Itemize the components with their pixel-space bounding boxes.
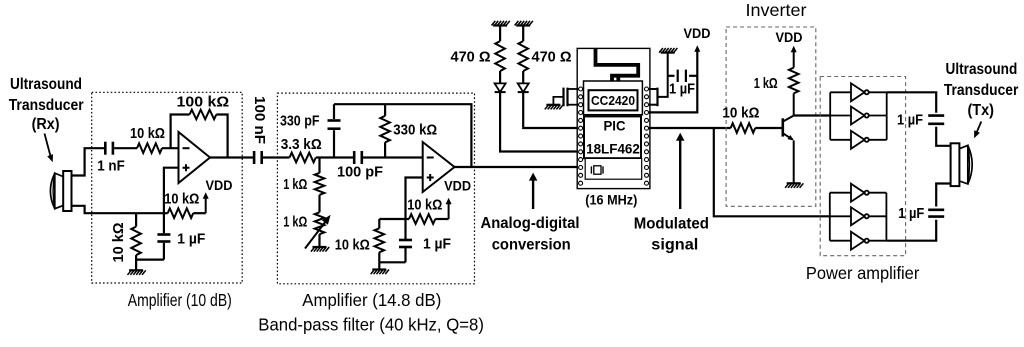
buffer input branch (830, 139, 851, 141)
svg-text:1 µF: 1 µF (898, 206, 924, 222)
buffer output branch (869, 115, 887, 117)
feedback wire + resistor 100 kOhm (171, 94, 230, 157)
svg-text:VDD: VDD (206, 178, 233, 193)
svg-text:Power amplifier: Power amplifier (806, 263, 920, 283)
CC2420 box (584, 81, 643, 115)
wire diode to module (523, 92, 578, 128)
wire 1nF to 10k (114, 147, 137, 149)
buffer output branch (869, 240, 887, 242)
resistor 10 kOhm input (130, 126, 165, 153)
svg-text:1 kΩ: 1 kΩ (283, 177, 307, 193)
svg-text:(Tx): (Tx) (967, 102, 994, 119)
top group output bus (886, 92, 888, 140)
amplifier 14.8dB dashed box (277, 93, 474, 284)
potentiometer arrow (305, 215, 331, 249)
buffer output branch (869, 91, 887, 93)
svg-text:Transducer: Transducer (9, 97, 84, 114)
svg-text:1 kΩ: 1 kΩ (283, 215, 307, 231)
svg-text:10 kΩ: 10 kΩ (335, 237, 370, 253)
label analog-digital conversion (481, 215, 580, 253)
capacitor 100 pF (337, 151, 383, 180)
svg-text:100 nF: 100 nF (251, 96, 267, 144)
buffer input branch (830, 115, 851, 117)
capacitor 1 uF module (668, 70, 698, 98)
feedback rail box2 (334, 104, 471, 167)
output wire to module (455, 166, 579, 168)
resistor 10 kOhm inverter (722, 105, 759, 132)
svg-text:10 kΩ: 10 kΩ (722, 105, 759, 121)
svg-text:1 µF: 1 µF (669, 81, 695, 97)
supply rail hatched (right 470) (515, 21, 533, 26)
VDD arrow amp1 (203, 178, 233, 213)
svg-text:Transducer: Transducer (944, 82, 1019, 99)
bottom output wire to cap (886, 220, 936, 241)
svg-text:1 µF: 1 µF (423, 236, 451, 252)
resistor 3.3 kOhm (281, 137, 322, 162)
wire Rx bottom to bias node (72, 206, 164, 213)
collector output wire (794, 114, 831, 116)
svg-text:470 Ω: 470 Ω (451, 49, 491, 65)
modulated signal arrow (676, 133, 685, 209)
buffer input branch (830, 91, 851, 93)
inverter buffer (851, 131, 869, 149)
diode (518, 83, 529, 92)
PIC module board (577, 48, 650, 188)
resistor 10 kOhm to ground (111, 213, 141, 270)
ground amp1 (128, 270, 146, 275)
ultrasound transducer Tx label (944, 61, 1019, 119)
plus input bias wire (406, 178, 423, 220)
svg-text:330 kΩ: 330 kΩ (393, 123, 437, 139)
transducer TR1 (Rx) (50, 171, 71, 211)
resistor 1 kOhm inverter (754, 68, 799, 94)
resistor 1 kOhm (283, 158, 324, 195)
wire Rx top to 1nF (72, 148, 105, 175)
buffer input branch (830, 215, 851, 217)
svg-text:1 µF: 1 µF (897, 112, 923, 128)
svg-text:Inverter: Inverter (746, 0, 807, 20)
inverter buffer (851, 107, 869, 125)
variable resistor 1 kOhm (283, 195, 324, 247)
inverter dashed box (726, 27, 816, 206)
right bracket pins to gnd line (649, 53, 668, 106)
capacitor 100 nF (251, 96, 267, 164)
resistor 470 Ohm (451, 26, 505, 84)
wire 10k to opamp (162, 147, 179, 149)
bottom panel of module (585, 158, 642, 179)
diode (495, 83, 506, 92)
svg-text:VDD: VDD (444, 179, 471, 194)
svg-text:3.3 kΩ: 3.3 kΩ (281, 137, 322, 153)
arrow to Rx transducer (45, 134, 54, 163)
svg-text:conversion: conversion (492, 236, 571, 253)
ground box2 bias (371, 270, 389, 275)
inverter buffer (851, 184, 869, 202)
VDD wire module (649, 26, 711, 113)
ground inverter (785, 183, 803, 188)
svg-text:Ultrasound: Ultrasound (10, 76, 82, 93)
analog-digital conversion arrow (529, 173, 538, 209)
transducer TR2 (Tx) (951, 143, 973, 186)
svg-text:Analog-digital: Analog-digital (481, 215, 580, 232)
svg-text:VDD: VDD (684, 26, 711, 41)
inverter buffer (851, 207, 869, 225)
buffer output branch (869, 215, 887, 217)
top output wire to cap (887, 92, 937, 112)
svg-text:PIC: PIC (604, 119, 626, 134)
modulated output wire (649, 127, 731, 129)
svg-text:100 pF: 100 pF (337, 164, 383, 180)
power amplifier dashed box (820, 77, 905, 256)
ultrasound transducer Rx label (9, 76, 84, 133)
svg-text:10 kΩ: 10 kΩ (111, 222, 127, 262)
buffer output branch (869, 192, 887, 194)
VDD arrow inverter (776, 30, 803, 68)
amplifier 10dB dashed box (92, 92, 243, 283)
svg-text:Amplifier (14.8 dB): Amplifier (14.8 dB) (302, 290, 441, 310)
svg-text:VDD: VDD (776, 30, 803, 45)
top group input bus (829, 92, 831, 140)
svg-text:(16 MHz): (16 MHz) (585, 192, 637, 207)
wire 100nF to box2 (263, 156, 290, 158)
svg-text:470 Ω: 470 Ω (532, 49, 572, 65)
buffer output branch (869, 139, 887, 141)
svg-text:Ultrasound: Ultrasound (946, 61, 1018, 78)
svg-text:1 nF: 1 nF (97, 158, 125, 174)
capacitor 1 uF top (897, 112, 944, 128)
svg-text:Modulated: Modulated (634, 215, 709, 232)
op-amp U1 (179, 132, 211, 183)
label modulated signal (634, 215, 709, 253)
supply rail hatched (left 470) (492, 21, 510, 26)
capacitor 1 uF box2 (399, 219, 451, 262)
svg-text:Amplifier (10 dB): Amplifier (10 dB) (128, 290, 232, 310)
svg-text:100 kΩ: 100 kΩ (177, 94, 230, 110)
svg-text:10 kΩ: 10 kΩ (407, 197, 442, 213)
crystal icon (591, 166, 603, 174)
resistor 10 kOhm to ground box2 (335, 219, 384, 270)
svg-text:1 kΩ: 1 kΩ (754, 76, 778, 92)
base wire (755, 127, 781, 129)
PIC 18LF462 box (584, 116, 641, 158)
transistor Q1 (783, 93, 794, 183)
svg-text:330 pF: 330 pF (280, 114, 320, 130)
wire 100pF to opamp2 (362, 156, 423, 158)
main wire node to 100pF (316, 156, 354, 158)
capacitor 330 pF (280, 104, 341, 157)
ground below pot (311, 247, 329, 252)
svg-text:Band-pass filter (40 kHz, Q=8): Band-pass filter (40 kHz, Q=8) (258, 314, 484, 334)
bias junction wire (379, 218, 405, 220)
module pin headers (579, 87, 649, 185)
plus input wire down to bias (164, 168, 179, 214)
bottom group input bus (829, 193, 831, 241)
hatched rail above 1uF (659, 48, 677, 53)
svg-text:(Rx): (Rx) (32, 116, 60, 133)
capacitor 1 uF bottom (898, 206, 944, 222)
PCB antenna (596, 49, 639, 81)
arrow to Tx transducer (974, 122, 981, 139)
resistor 10 kOhm to VDD (164, 191, 206, 218)
resistor 470 Ohm (518, 26, 571, 84)
svg-text:signal: signal (651, 236, 698, 253)
svg-text:1 µF: 1 µF (177, 231, 205, 247)
op-amp U2 (423, 142, 455, 192)
inverter buffer (851, 232, 869, 250)
decoupling cap left of module (553, 88, 578, 107)
resistor 330 kOhm (380, 104, 437, 157)
inverter buffer (851, 83, 869, 101)
wire cap to Tx bottom (936, 184, 950, 207)
wire res bottom to cap bottom (136, 259, 164, 261)
capacitor 1 uF amp1 (157, 213, 205, 259)
tee down to power amp bottom group (714, 128, 830, 216)
wire res to cap bottom box2 (379, 261, 405, 263)
svg-text:CC2420: CC2420 (591, 93, 635, 108)
svg-text:10 kΩ: 10 kΩ (130, 126, 165, 142)
wire diode to module (500, 92, 578, 151)
svg-text:18LF462: 18LF462 (586, 142, 640, 157)
wire cap to Tx top (936, 127, 950, 146)
ground left of module (545, 105, 563, 110)
buffer input branch (830, 192, 851, 194)
bottom group output bus (885, 193, 887, 241)
buffer input branch (830, 240, 851, 242)
svg-text:10 kΩ: 10 kΩ (164, 191, 199, 207)
VDD arrow box2 (444, 179, 471, 219)
output wire to 100nF (210, 156, 254, 158)
resistor 10 kOhm to VDD box2 (406, 197, 449, 223)
capacitor 1 nF (97, 142, 125, 175)
